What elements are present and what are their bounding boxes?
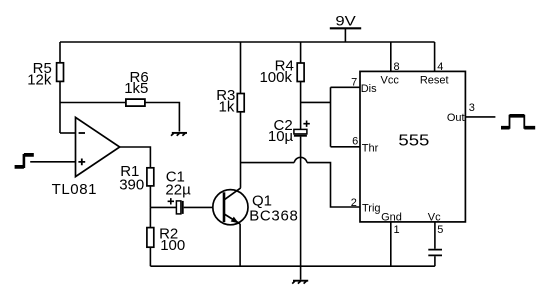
wire hop over ground line [294,157,307,162]
svg-text:10µ: 10µ [268,128,294,145]
wire Q1 emitter down [239,224,241,266]
IC 555 box [360,71,465,222]
wire top 9V rail [60,41,435,43]
wire R4C2 node to dis/thr [301,87,360,147]
wire C3 to bottom rail [434,256,436,266]
capacitor C2 positive plate [294,129,307,134]
wire R5 bottom to inverting node [59,81,61,133]
svg-text:Vcc: Vcc [381,75,400,87]
svg-text:Reset: Reset [420,75,449,87]
wire pin 4 Reset [434,42,436,71]
svg-text:390: 390 [119,177,144,194]
wire pin 3 out [465,116,495,118]
wire R4 top lead [300,42,302,63]
op-amp U1 triangle [76,117,120,176]
wire node A to C1 [150,206,176,208]
wire Q1 collector to R3 [240,112,242,188]
resistor R3 [237,94,244,112]
svg-text:4: 4 [437,61,443,73]
svg-text:Vc: Vc [428,211,441,223]
op-amp minus glyph [79,132,85,134]
wire pin 1 Gnd [390,222,392,266]
svg-text:5: 5 [437,224,443,236]
transistor Q1 [213,188,248,225]
wire node to R6 [60,102,126,104]
9V supply bar [330,27,361,29]
svg-text:12k: 12k [27,72,52,89]
input step symbol [15,154,34,168]
svg-text:BC368: BC368 [249,208,298,225]
svg-text:100k: 100k [259,69,292,86]
wire inverting input [60,132,76,134]
svg-text:TL081: TL081 [52,181,98,198]
output pulse symbol [501,115,535,129]
svg-text:6: 6 [352,136,358,148]
wire R1 bottom to node A [149,186,151,208]
C2 plus sign [303,121,309,127]
wire collector to trig with hop [241,162,295,164]
wire R5 top lead [59,42,61,63]
wire R6 to ground corner [145,103,180,132]
wire C2 to ground [300,137,302,280]
svg-text:Thr: Thr [362,142,379,154]
wire non-inverting input [30,161,75,163]
resistor R2 [147,228,154,248]
svg-text:1k: 1k [219,98,235,115]
wire hop to corner [307,163,360,207]
wire op-amp output [120,147,151,168]
resistor R4 [297,63,304,82]
svg-text:3: 3 [469,102,475,114]
svg-text:Trig: Trig [362,203,381,215]
resistor R5 [57,63,64,82]
capacitor C1 negative plate [182,201,184,214]
wire pin 5 Vc [434,222,436,249]
ground (R6) [171,133,187,136]
wire R4 bottom to C2 [300,82,302,130]
wire node A to R2 [149,207,151,227]
svg-text:100: 100 [160,237,185,254]
svg-text:555: 555 [398,133,429,150]
svg-text:9V: 9V [335,12,356,28]
svg-text:Dis: Dis [361,83,377,95]
svg-text:Out: Out [447,112,465,124]
svg-text:2: 2 [351,197,357,209]
svg-text:7: 7 [351,77,357,89]
op-amp plus glyph [78,159,85,166]
svg-text:Gnd: Gnd [381,212,402,224]
capacitor C1 positive plate [176,201,181,214]
wire 9V to rail [344,28,346,42]
capacitor C2 negative plate [294,135,307,137]
resistor R1 [147,168,154,186]
wire bottom rail [150,265,435,267]
wire pin 8 Vcc [390,42,392,71]
wire R2 bottom [149,247,151,266]
C1 plus sign [168,198,174,204]
capacitor C3 plates [428,250,442,256]
svg-text:1: 1 [394,224,400,236]
Q1 emitter arrow [231,217,239,224]
wire R3 top to rail [240,42,242,94]
wire C1 to Q1 base [184,206,213,208]
svg-text:22µ: 22µ [165,181,191,198]
ground (C2) [292,281,308,284]
svg-text:8: 8 [394,61,400,73]
resistor R6 [126,99,145,106]
svg-text:1k5: 1k5 [124,80,148,97]
